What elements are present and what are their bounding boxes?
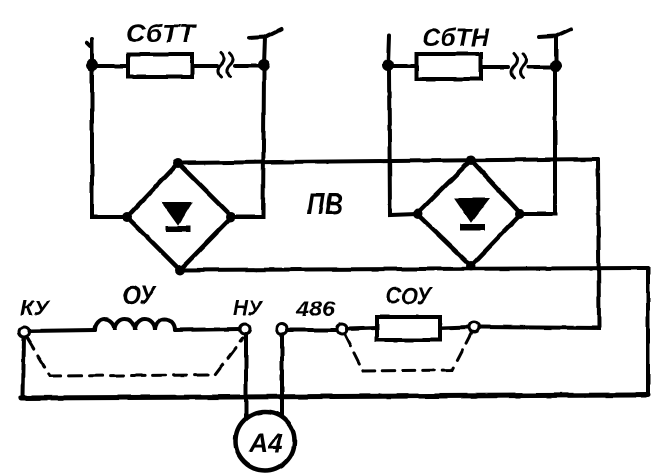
junction dot bridge2 top [466, 155, 476, 165]
svg-text:486: 486 [295, 298, 335, 321]
svg-text:СбТН: СбТН [422, 24, 490, 52]
wire bottom bus joining bridge minus outputs [180, 268, 648, 270]
wire KU to coil [29, 330, 95, 331]
svg-text:НУ: НУ [233, 297, 264, 320]
wire long bottom return bus [21, 395, 648, 398]
svg-text:СбТТ: СбТТ [126, 20, 198, 48]
node right terminal of CbTN winding [550, 60, 562, 72]
junction dot bridge2 bottom [466, 261, 476, 271]
wire resistor to break right [481, 65, 508, 69]
wire right vertical from top bus down to SOU wire [479, 159, 599, 328]
node left terminal of CbTN winding [382, 59, 394, 71]
wire break to right node CbTN [528, 65, 551, 69]
junction dot bridge2 left [413, 209, 423, 219]
dashed feedback under SOU [345, 333, 471, 371]
terminal hook above right node [249, 29, 281, 65]
node left terminal of CbTT winding [86, 59, 98, 71]
wire 486 down to ammeter [280, 334, 284, 417]
node right terminal of CbTT winding [258, 59, 270, 71]
resistor CbTT body [128, 54, 192, 77]
wire resistor SOU to right terminal [440, 327, 469, 328]
terminal KU open circle [19, 327, 29, 337]
junction dot bridge2 right [515, 209, 525, 219]
wire 486 to SOU left terminal [287, 328, 337, 332]
wire CbTN left node down to bridge2 left vertex [389, 70, 417, 215]
terminal 486 open circle [277, 324, 287, 334]
junction dot bridge1 bottom [175, 265, 185, 275]
junction dot bridge1 right [226, 212, 236, 222]
terminal SOU left open circle [337, 324, 347, 334]
wire right node down to bridge right vertex [232, 70, 264, 217]
wire SOU left terminal to resistor [347, 328, 377, 329]
terminal hook above CbTN right node [539, 29, 571, 66]
conductor break squiggle [218, 53, 224, 77]
wire right outer corner down [646, 268, 650, 395]
wire coil to NU [175, 329, 240, 330]
junction dot bridge1 left [122, 212, 132, 222]
inductor coil OU [95, 319, 175, 330]
diode symbol inside bridge2 [456, 199, 488, 221]
svg-text:ОУ: ОУ [122, 280, 157, 310]
rectifier bridge PV right diamond [417, 160, 521, 266]
svg-text:КУ: КУ [20, 297, 51, 320]
svg-text:А4: А4 [248, 428, 284, 458]
wire resistor to break [192, 64, 217, 68]
svg-text:СОУ: СОУ [386, 283, 433, 310]
wire NU down to ammeter [244, 334, 248, 418]
junction dot bridge1 top [173, 158, 183, 168]
wire node to resistor CbTN [388, 64, 417, 68]
wire node to resistor CbTT [92, 64, 128, 68]
ammeter A4 circle [236, 412, 295, 471]
wire break to right node [235, 64, 258, 68]
wire CbTN right node down to bridge2 right vertex [521, 70, 555, 214]
svg-text:ПВ: ПВ [307, 186, 343, 221]
wire stub up from CbTN left node [388, 36, 389, 65]
wire stub up from left node [87, 39, 92, 65]
wire left node down to bridge left vertex [92, 70, 127, 217]
diode symbol inside bridge1 [163, 203, 191, 224]
conductor break squiggle right [511, 54, 517, 78]
resistor CbTN body [417, 54, 481, 79]
rectifier bridge PV left diamond [127, 163, 232, 270]
wire top bus joining bridge plus outputs [178, 159, 598, 163]
resistor SOU body [377, 317, 440, 340]
dashed feedback under OU [27, 338, 243, 376]
terminal NU open circle [240, 324, 250, 334]
wire KU drop to bottom bus [23, 336, 24, 397]
terminal SOU right open circle [469, 322, 479, 332]
